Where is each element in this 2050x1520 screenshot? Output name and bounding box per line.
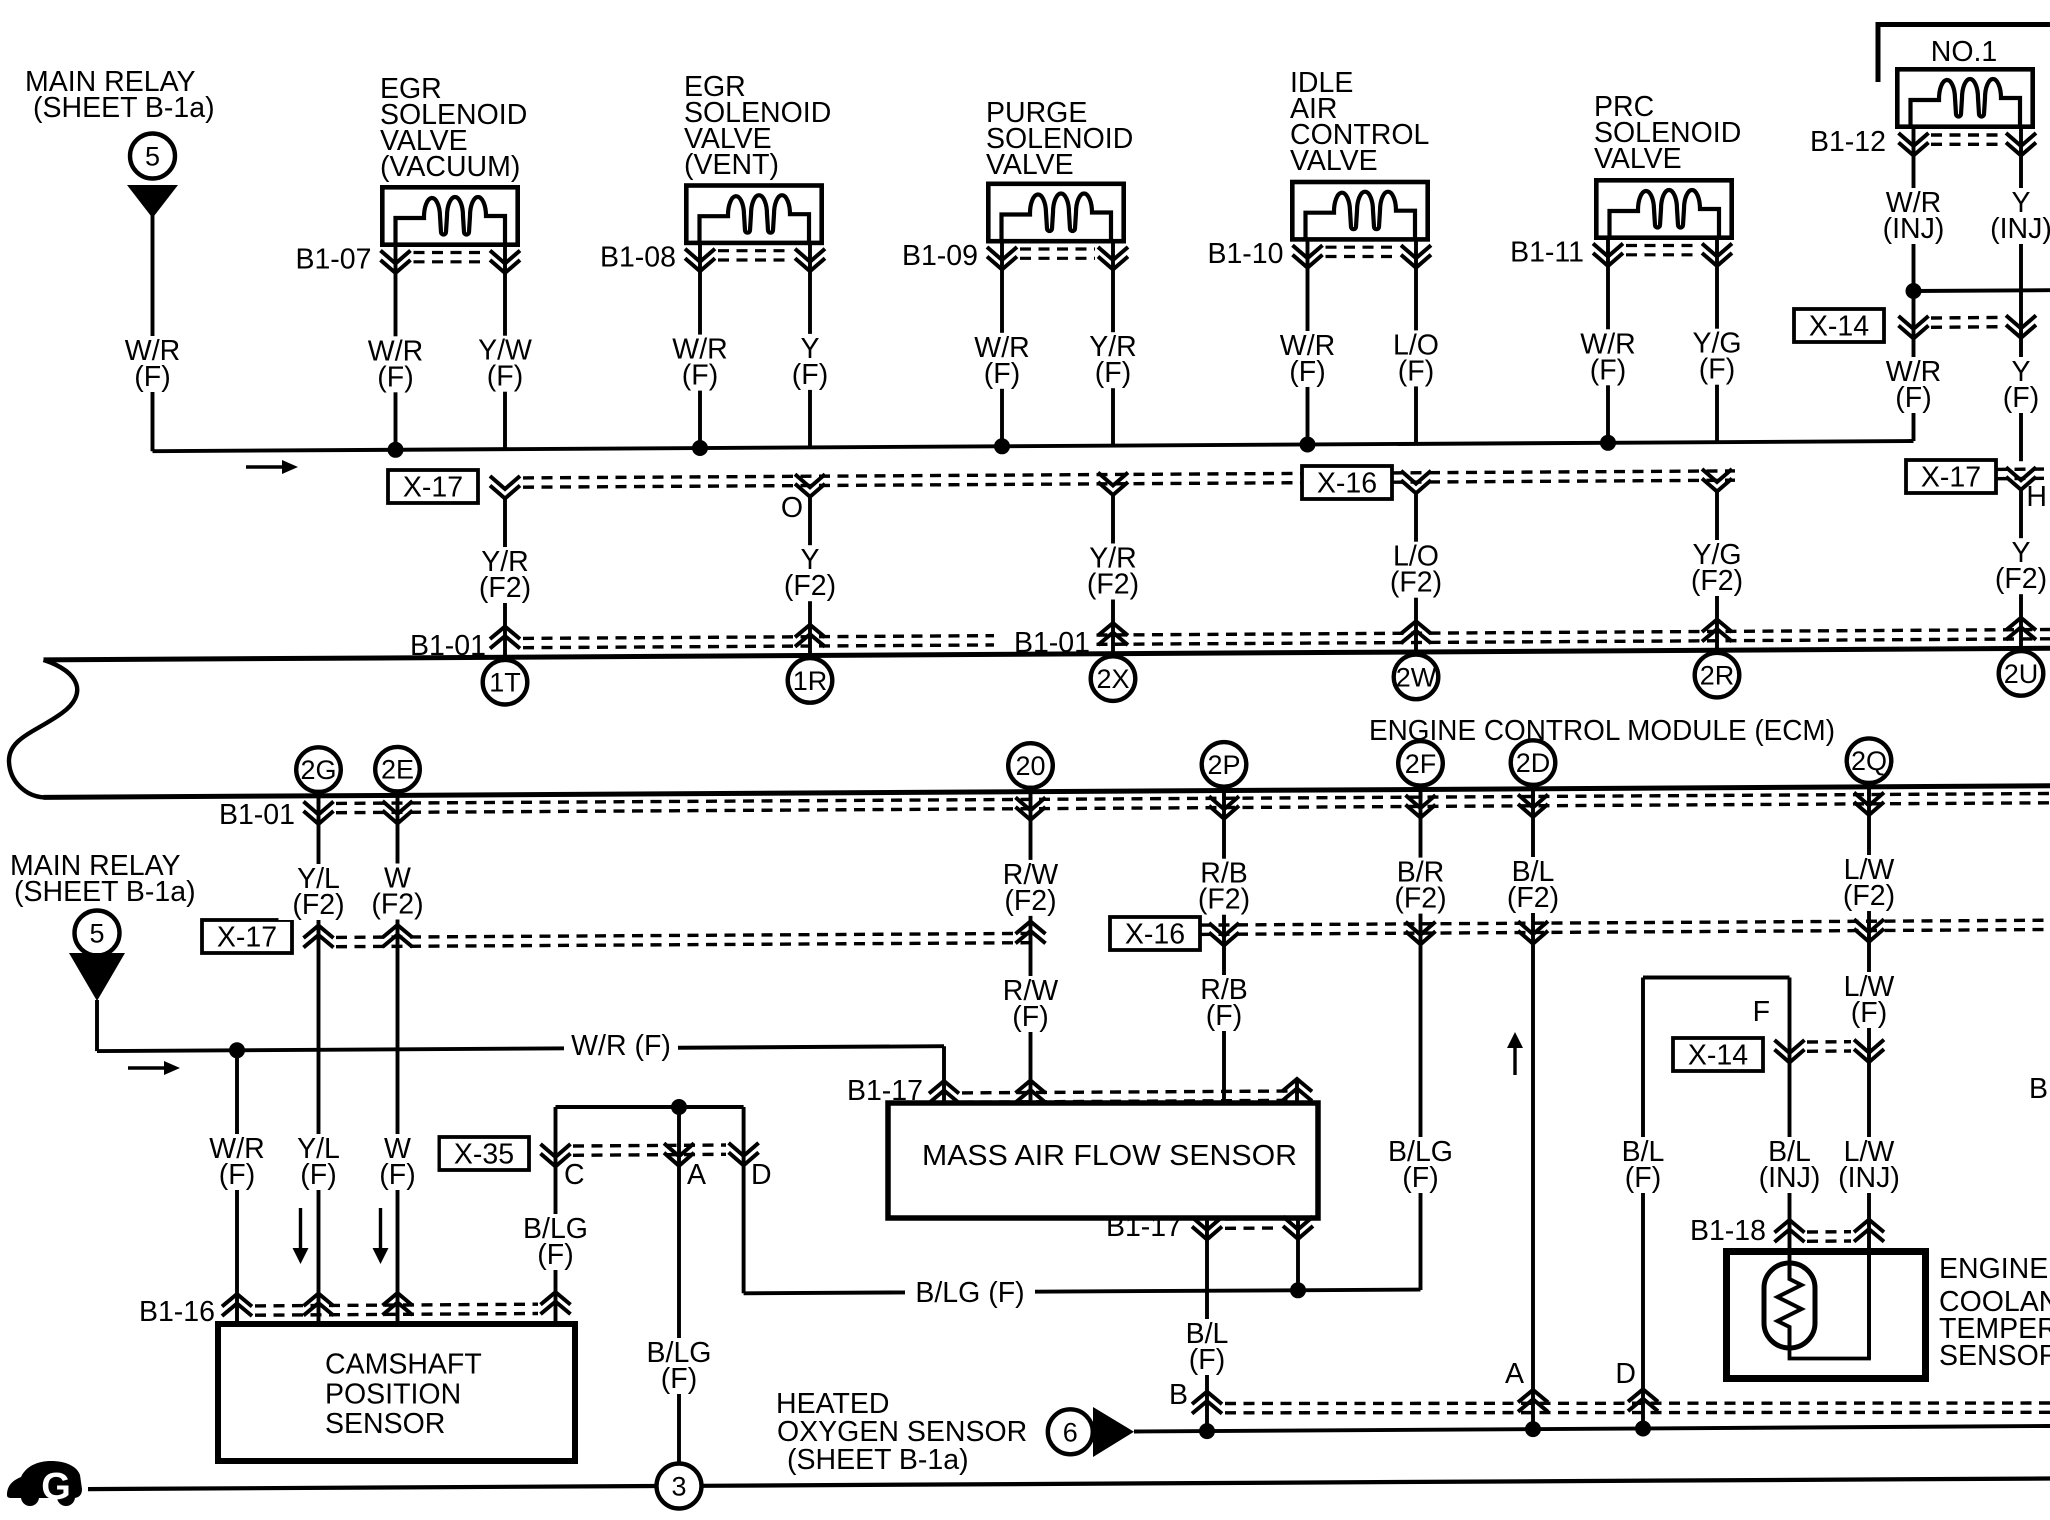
wire label Y (F2) at x=2021 (1981, 537, 2050, 595)
connector B1-01 label (right) (994, 627, 1091, 659)
connector B1-12 chevron left (1899, 133, 1929, 146)
flow arrow down (W) (379, 1208, 382, 1249)
svg-text:(SHEET B-1a): (SHEET B-1a) (33, 92, 215, 124)
svg-text:X-17: X-17 (217, 922, 277, 954)
circuit reference circle 6 (heated oxygen sensor) (1048, 1409, 1093, 1454)
wire Y (F2) from connector row to ECM pin 2U (2019, 490, 2023, 650)
connector B1-16 chevron at x=237 (222, 1294, 252, 1307)
svg-text:B1-18: B1-18 (1690, 1215, 1766, 1247)
thermistor body (stadium) (1764, 1263, 1815, 1348)
connector X-17 lower chevron (Y/L) (304, 926, 334, 939)
ECM pin circle 2Q (1847, 738, 1892, 783)
svg-text:(F): (F) (1206, 1000, 1242, 1032)
connector X-35 chevron C (541, 1144, 571, 1157)
svg-text:2F: 2F (1405, 749, 1437, 779)
connector B1-01 lower chevron at pin 2F (1406, 795, 1436, 808)
ECM pin circle 2W (1394, 655, 1439, 700)
svg-text:(F): (F) (984, 358, 1020, 390)
svg-text:(F): (F) (1095, 357, 1131, 389)
connector X-17 chevron (Y injector wire) (2006, 467, 2036, 480)
connector X-35 box (439, 1137, 529, 1170)
wire L/O (F2) from connector row to ECM pin 2W (1414, 494, 1418, 654)
svg-text:(SHEET B-1a): (SHEET B-1a) (787, 1444, 969, 1476)
svg-text:F: F (1753, 996, 1770, 1028)
connector X-16 dashed run (1392, 471, 1735, 473)
connector X-16 box (upper) (1302, 466, 1392, 499)
wire Y/G (F) right lead of B1-11 down (1715, 236, 1719, 442)
flow arrow on W/R wire (128, 1066, 165, 1069)
solenoid valve coil valve 10 box (1292, 182, 1427, 240)
svg-text:(F2): (F2) (1691, 565, 1743, 597)
svg-text:X-14: X-14 (1688, 1040, 1748, 1072)
connector B1-16 chevron at x=318.5 (304, 1294, 334, 1307)
svg-text:A: A (1505, 1358, 1524, 1390)
wire W/R (F) left lead of B1-11 to bus (1606, 236, 1610, 443)
connector B1-01 chevron at pin 2U (2006, 618, 2036, 631)
svg-text:(F): (F) (379, 1159, 415, 1191)
wire Y/W (F) right lead of B1-07 down (503, 243, 507, 449)
solenoid valve coil valve 08 box (686, 186, 821, 244)
connector X-17 box (upper right) (1906, 460, 1996, 493)
flow arrow on bus (246, 465, 283, 468)
svg-text:(F): (F) (219, 1159, 255, 1191)
connector X-17 lower chevron (W) (383, 925, 413, 938)
connector X-17 chevron (Y wire) (795, 474, 825, 487)
svg-text:VALVE: VALVE (1594, 143, 1682, 175)
connector X-16 box (lower) (1110, 917, 1200, 950)
svg-text:B1-01: B1-01 (219, 799, 295, 831)
svg-text:D: D (1615, 1358, 1636, 1390)
connector B1-16 chevron at x=397.5 (383, 1293, 413, 1306)
connector B1-09 dashed line (1020, 247, 1095, 250)
wire W/R (F) left lead of B1-09 to bus (1000, 240, 1004, 447)
wire B/L (INJ) drop to ECT (1788, 978, 1792, 1265)
ground car icon (7, 1461, 82, 1498)
inline wire label B/LG (F) (905, 1277, 1035, 1310)
svg-text:(F2): (F2) (1087, 569, 1139, 601)
svg-text:B1-17: B1-17 (1106, 1211, 1182, 1243)
svg-text:(F): (F) (1289, 356, 1325, 388)
connector dashed run (O2 row) (1225, 1401, 2050, 1405)
svg-text:(F2): (F2) (1394, 883, 1446, 915)
svg-text:(VENT): (VENT) (684, 149, 779, 181)
connector X-14 box (lower) (1673, 1038, 1763, 1071)
wire label Y (F) on right lead of B1-08 (770, 333, 850, 391)
wire A branch to circle 3 (677, 1107, 681, 1463)
connector X-17 box (lower) (202, 920, 292, 953)
connector B1-07 dashed line (414, 251, 488, 254)
wire label B/LG (F) on C wire (513, 1213, 599, 1271)
wire label B/R (F2) below ECM at x=1420.5 (1381, 857, 1461, 915)
connector B1-01 lower chevron at pin 2E (383, 801, 413, 814)
ECM left torn-edge curve (9, 660, 77, 798)
wire label W/R (F) on left lead of B1-08 (660, 334, 740, 392)
inline wire label W/R (F) (564, 1030, 678, 1063)
connector B1-12 chevron right (2006, 133, 2036, 146)
connector X-17 dashed run (right) (1996, 467, 2050, 471)
flow arrow up (B/L) (1513, 1047, 1516, 1075)
svg-text:W/R (F): W/R (F) (571, 1030, 671, 1062)
wire W/R (F) left lead of B1-07 to bus (394, 243, 398, 450)
svg-text:CAMSHAFT: CAMSHAFT (325, 1349, 482, 1381)
wire L/O (F) right lead of B1-10 down (1414, 238, 1418, 444)
wire B/L from MAF (1205, 1218, 1209, 1430)
wire label W/R (F) below X-14 (1874, 356, 1954, 414)
wire label L/O (F2) at x=1416 (1376, 541, 1456, 599)
wire label Y/W (F) on right lead of B1-07 (465, 335, 545, 393)
svg-text:ENGINE CONTROL MODULE (ECM): ENGINE CONTROL MODULE (ECM) (1369, 715, 1835, 747)
svg-text:X-17: X-17 (403, 472, 463, 504)
svg-text:(F): (F) (2003, 382, 2039, 414)
wire label Y/L (F2) below ECM at x=318.5 (279, 863, 359, 921)
ECT internal loop wire (1790, 1251, 1870, 1359)
ECM pin circle 2D (1511, 740, 1556, 785)
svg-text:(F): (F) (1895, 382, 1931, 414)
ECM pin 2E stub (396, 789, 400, 803)
wire label W/R (F) on left lead of B1-10 (1268, 330, 1348, 388)
connector B1-01 lower chevron at pin 2D (1518, 795, 1548, 808)
connector B1-01 lower chevron at pin 20 (1016, 797, 1046, 810)
svg-text:(F): (F) (1625, 1162, 1661, 1194)
wire W camshaft column (396, 800, 400, 1321)
svg-text:B/LG (F): B/LG (F) (915, 1277, 1024, 1309)
wire label R/W (F2) below ECM at x=1030.5 (991, 859, 1071, 917)
svg-text:(F): (F) (1851, 997, 1887, 1029)
ECM pin circle 2P (1202, 742, 1247, 787)
wire label W/R (F) on main relay wire (113, 335, 193, 393)
svg-text:(F2): (F2) (371, 889, 423, 921)
flow arrow down (Y/L) (299, 1208, 302, 1249)
wire label W/R (F) on left lead of B1-09 (962, 332, 1042, 390)
wire W/R camshaft column (235, 1050, 239, 1321)
svg-text:B1-10: B1-10 (1207, 238, 1283, 270)
wire label R/B (F) (1184, 974, 1264, 1032)
solenoid valve coil valve 07 box (382, 187, 517, 245)
svg-text:20: 20 (1015, 751, 1045, 781)
wire label W/R (INJ) (1868, 187, 1960, 245)
wire label R/W (F) (991, 975, 1071, 1033)
connector X-16 lower chevron (R/B) (1209, 923, 1239, 936)
connector X-17/X-16 dashed run (left) (523, 473, 1302, 478)
wire label W/R (F) on left lead of B1-11 (1568, 328, 1648, 386)
connector B1-17 lower chevron B/LG (1283, 1217, 1313, 1230)
connector B1-08 dashed line (718, 249, 792, 252)
wire label B/LG (F) on A wire (636, 1337, 722, 1395)
connector B1-01 chevron at pin 1R (795, 625, 825, 638)
connector B1-01 lower chevron at pin 2P (1209, 796, 1239, 809)
svg-text:VALVE: VALVE (986, 149, 1074, 181)
wire Y/L camshaft column (317, 801, 321, 1321)
wire label Y/R (F2) at x=505 (465, 546, 545, 604)
svg-text:(F): (F) (134, 361, 170, 393)
svg-text:X-16: X-16 (1317, 468, 1377, 500)
svg-text:(F2): (F2) (1507, 882, 1559, 914)
circuit reference circle 3 (ground) (657, 1464, 702, 1509)
junction dot O2 at 2D wire (1525, 1421, 1541, 1437)
wire label L/W (INJ) (1823, 1136, 1915, 1194)
connector chevron D (O2 row) (1628, 1389, 1658, 1402)
svg-text:POSITION: POSITION (325, 1379, 461, 1411)
connector B1-01 chevron at pin 2R (1702, 620, 1732, 633)
svg-text:(F2): (F2) (784, 570, 836, 602)
heated oxygen sensor wire (1134, 1426, 2050, 1432)
connector B1-10 chevron left (1293, 245, 1323, 258)
solenoid valve coil valve 09 box (988, 184, 1123, 242)
wire to other injectors (horizontal at right) (1914, 288, 2050, 293)
wire label B/L (INJ) (1744, 1136, 1836, 1194)
connector B1-17 lower dashed run (1225, 1217, 1280, 1221)
ECM pin circle 2X (1091, 656, 1136, 701)
wire W/R (F) relay drop (95, 1000, 99, 1051)
svg-text:2Q: 2Q (1851, 746, 1887, 776)
wire MAF to B/LG junction (1296, 1218, 1300, 1290)
connector B1-08 chevron left (685, 249, 715, 262)
wire D branch (742, 1107, 746, 1293)
junction dot W/R at camshaft branch (229, 1042, 245, 1058)
connector B1-07 chevron left (381, 251, 411, 264)
wire B/R - B/LG column (2F) (1419, 795, 1423, 1291)
wire label W/R (F) camshaft (197, 1133, 277, 1191)
connector B1-11 dashed line (1626, 244, 1699, 247)
junction dot O2 at loop wire (1635, 1421, 1651, 1437)
svg-text:(INJ): (INJ) (1759, 1162, 1821, 1194)
wire label Y/G (F2) at x=1717 (1677, 539, 1757, 597)
junction dot X-35 A branch (671, 1099, 687, 1115)
connector X-16 chevron (L/O wire) (1401, 471, 1431, 484)
junction dot on bus at x=395.5 (388, 442, 404, 458)
svg-text:2U: 2U (2004, 659, 2039, 689)
wire Y/R (F2) from connector row to ECM pin 1T (503, 499, 507, 659)
connector B1-01 lower chevron at pin 2G (304, 802, 334, 815)
connector X-35 chevron D (729, 1143, 759, 1156)
junction dot on bus at x=1002 (994, 438, 1010, 454)
svg-text:(F2): (F2) (479, 572, 531, 604)
svg-text:(INJ): (INJ) (1990, 213, 2050, 245)
connector B1-16 dashed run (255, 1304, 538, 1306)
wire label B/L (F2) below ECM at x=1533 (1493, 856, 1573, 914)
svg-text:VALVE: VALVE (1290, 145, 1378, 177)
wire label Y/R (F2) at x=1113 (1073, 543, 1153, 601)
connector B1-18 dashed run (1807, 1230, 1851, 1234)
svg-text:2X: 2X (1096, 664, 1129, 694)
ECM pin circle 2E (375, 747, 420, 792)
wire B/LG (F) horizontal link (744, 1290, 909, 1295)
connector X-14 lower dashed run (1807, 1040, 1851, 1044)
connector B1-11 chevron left (1593, 244, 1623, 257)
ECM pin 20 stub (1029, 786, 1033, 800)
ECM pin circle 1T (483, 660, 528, 705)
circuit reference circle 5 (main relay) (130, 134, 175, 179)
engine coolant temperature sensor box (1727, 1252, 1926, 1379)
connector B1-18 chevron L/W (1854, 1220, 1884, 1233)
wire Y (F2) from connector row to ECM pin 1R (808, 497, 812, 657)
connector X-16 lower dashed run (1200, 920, 2050, 925)
ECM pin circle 2F (1398, 741, 1443, 786)
wire label B/L (F) on MAF wire (1167, 1318, 1247, 1376)
svg-text:A: A (687, 1159, 706, 1191)
connector X-17 lower dashed run (336, 933, 1030, 937)
ECM bottom edge line (44, 786, 2050, 798)
ECM pin 2G stub (317, 790, 321, 804)
wire W/R (F) left lead of B1-10 to bus (1306, 238, 1310, 445)
connector B1-01 chevron at pin 1T (490, 627, 520, 640)
connector B1-09 chevron right (1098, 247, 1128, 260)
svg-text:(F): (F) (377, 361, 413, 393)
wire B/L (F) loop drop (1641, 978, 1645, 1429)
junction dot B/LG at MAF (1290, 1282, 1306, 1298)
svg-text:(F): (F) (1398, 355, 1434, 387)
connector X-16 lower chevron (B/R) (1406, 922, 1436, 935)
wire label L/O (F) on right lead of B1-10 (1376, 329, 1456, 387)
wire top loop of X-35 (C to D) (556, 1105, 744, 1109)
svg-text:5: 5 (145, 142, 160, 172)
ground distribution line (left) (88, 1486, 657, 1489)
wire label Y (F2) at x=810 (770, 544, 850, 602)
connector X-35 chevron A (664, 1143, 694, 1156)
svg-text:G: G (41, 1466, 71, 1508)
wire loop horizontal (B/L to X-14) (1643, 976, 1790, 980)
connector X-14 lower chevron L/W (1854, 1040, 1884, 1053)
svg-text:1T: 1T (489, 668, 521, 698)
wire label Y (INJ) (1975, 187, 2050, 245)
svg-text:B: B (2029, 1073, 2048, 1105)
junction dot on bus at x=700 (692, 440, 708, 456)
svg-text:SENSOR: SENSOR (1939, 1340, 2050, 1372)
svg-text:X-14: X-14 (1809, 311, 1869, 343)
connector chevron B (O2 row) (1192, 1392, 1222, 1405)
svg-text:X-35: X-35 (454, 1139, 514, 1171)
svg-text:1R: 1R (793, 666, 828, 696)
ECM pin 2Q stub (1867, 781, 1871, 795)
svg-text:B1-09: B1-09 (902, 240, 978, 272)
connector B1-01 label (left) (390, 630, 487, 662)
junction dot on bus at x=1307.5 (1300, 437, 1316, 453)
connector X-14 box (top) (1794, 309, 1884, 342)
ECM pin circle 2U (1999, 651, 2044, 696)
svg-text:ENGINE: ENGINE (1939, 1253, 2048, 1285)
svg-text:6: 6 (1063, 1417, 1078, 1447)
ECM pin 2D stub (1531, 783, 1535, 797)
wire label Y/G (F) on right lead of B1-11 (1677, 328, 1757, 386)
svg-text:H: H (2026, 481, 2047, 513)
wire Y/R (F) right lead of B1-09 down (1111, 240, 1115, 446)
connector B1-18 chevron B/L (1775, 1220, 1805, 1233)
feed arrow triangle (oxygen sensor) (1093, 1407, 1134, 1457)
connector X-35 dashed run (573, 1145, 726, 1146)
svg-text:(F): (F) (1012, 1001, 1048, 1033)
power feed arrow (solid triangle) lower relay (69, 953, 125, 1001)
mass air flow sensor box (888, 1103, 1318, 1218)
connector B1-01 chevron at pin 2W (1401, 621, 1431, 634)
svg-text:B1-16: B1-16 (139, 1296, 215, 1328)
connector B1-12 dashed line (1931, 133, 2003, 136)
wire Y (INJ) from injector down (2019, 125, 2023, 461)
connector B1-01 dashed run (upper) (523, 630, 2050, 639)
svg-text:5: 5 (89, 919, 104, 949)
wire B/LG (F) horizontal link right part (1032, 1290, 1421, 1292)
connector X-17 box (upper left) (388, 470, 478, 503)
connector B1-17 lower chevron B/L (1192, 1217, 1222, 1230)
injector group border bracket (top right) (1878, 25, 2050, 83)
connector B1-09 chevron left (987, 247, 1017, 260)
wire B/L column (2D) to oxygen sensor line (1531, 794, 1535, 1429)
wire R/B MAF column (1222, 796, 1226, 1102)
svg-text:(F2): (F2) (1995, 563, 2047, 595)
wire Y/R (F2) from connector row to ECM pin 2X (1111, 496, 1115, 656)
connector B1-17 upper dashed run (962, 1091, 1296, 1093)
thermistor resistor zigzag (1778, 1264, 1802, 1348)
ECM pin circle 20 (1008, 743, 1053, 788)
wire W/R (F) from main relay down to bus (151, 215, 155, 451)
svg-text:X-17: X-17 (1921, 462, 1981, 494)
svg-text:B: B (1169, 1379, 1188, 1411)
svg-text:2R: 2R (1700, 661, 1735, 691)
connector B1-08 chevron right (795, 249, 825, 262)
wire label B/L (F) loop wire (1603, 1136, 1683, 1194)
wire label Y/L (F) camshaft (279, 1133, 359, 1191)
wire Y (F) right lead of B1-08 down (808, 241, 812, 447)
connector B1-01 dashed run (lower) (336, 794, 2050, 804)
svg-text:(F): (F) (1189, 1344, 1225, 1376)
svg-text:C: C (564, 1159, 585, 1191)
svg-text:(F): (F) (1590, 354, 1626, 386)
svg-text:(F2): (F2) (1198, 884, 1250, 916)
svg-text:(SHEET B-1a): (SHEET B-1a) (14, 876, 196, 908)
svg-text:(F): (F) (1699, 354, 1735, 386)
svg-text:2W: 2W (1396, 662, 1437, 692)
connector X-17 chevron (Y/W wire) (490, 476, 520, 489)
junction dot O2 at B/L MAF wire (1199, 1423, 1215, 1439)
wire label Y/R (F) on right lead of B1-09 (1073, 331, 1153, 389)
svg-text:(F): (F) (792, 359, 828, 391)
wire label W (F) camshaft (358, 1133, 438, 1191)
svg-text:(F2): (F2) (1843, 880, 1895, 912)
solenoid valve coil valve 11 box (1596, 180, 1731, 238)
svg-text:B1-12: B1-12 (1810, 126, 1886, 158)
wire label W (F2) below ECM at x=397.5 (358, 863, 438, 921)
svg-text:2P: 2P (1207, 750, 1240, 780)
ground distribution line (right) (702, 1479, 2050, 1486)
wire W/R (INJ) from injector down to junction (1912, 125, 1916, 292)
wire W/R (F) drop into MAF B1-17 (942, 1046, 946, 1102)
svg-text:3: 3 (671, 1472, 686, 1502)
power feed arrow (solid triangle) from main relay (127, 185, 178, 218)
ECM top edge line (44, 648, 2050, 660)
main bus wire W/R (horizontal) (153, 441, 1914, 451)
svg-text:O: O (781, 492, 803, 524)
wire label B/LG (F) below X-16 (1378, 1136, 1464, 1194)
svg-text:MASS AIR FLOW SENSOR: MASS AIR FLOW SENSOR (922, 1140, 1297, 1172)
camshaft position sensor box (218, 1324, 575, 1461)
wire label Y (F) below X-14 (1981, 356, 2050, 414)
junction dot injector feed (1906, 283, 1922, 299)
connector B1-07 chevron right (490, 251, 520, 264)
svg-text:SENSOR: SENSOR (325, 1408, 445, 1440)
svg-text:X-16: X-16 (1125, 919, 1185, 951)
ECM pin circle 2R (1695, 653, 1740, 698)
junction dot on bus at x=1608 (1600, 435, 1616, 451)
connector B1-10 chevron right (1401, 245, 1431, 258)
svg-text:(VACUUM): (VACUUM) (380, 151, 520, 183)
svg-text:(INJ): (INJ) (1883, 213, 1945, 245)
wire Y/G (F2) from connector row to ECM pin 2R (1715, 492, 1719, 652)
connector B1-16 chevron at x=555.5 (541, 1292, 571, 1305)
wire label W/R (F) on left lead of B1-07 (356, 335, 436, 393)
connector B1-17 upper chevron W/R (929, 1081, 959, 1094)
svg-text:(INJ): (INJ) (1838, 1162, 1900, 1194)
svg-text:(F): (F) (682, 360, 718, 392)
svg-text:(F): (F) (661, 1363, 697, 1395)
